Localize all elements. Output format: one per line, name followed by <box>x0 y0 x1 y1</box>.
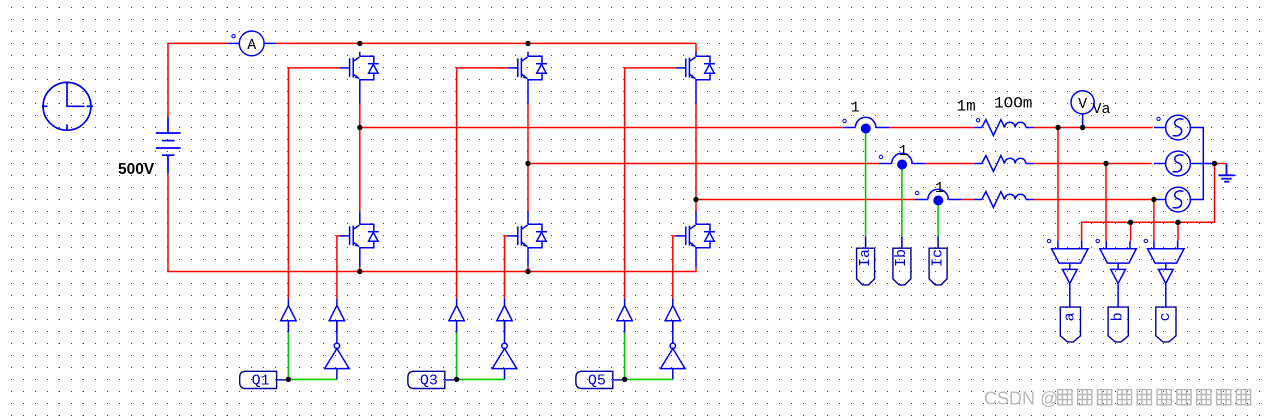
wire: bus drop to comparator b <box>1130 222 1132 241</box>
node: bus tap c <box>1175 220 1180 225</box>
inverter gate at x=504.5 <box>492 321 517 380</box>
wire: phase A to comparator a <box>1057 128 1059 242</box>
gate buffer at x=456.6 <box>449 299 464 333</box>
inverter gate at x=336.9 <box>325 321 350 380</box>
AC source Vb <box>1154 151 1190 176</box>
wire: leg3 lower gate feed <box>673 236 677 299</box>
wire: leg2 lower emitter to rail <box>527 267 529 272</box>
wire: leg2 phase B to lower collector <box>527 164 529 212</box>
node Q5 junction <box>622 377 627 382</box>
svg-text:Q3: Q3 <box>420 372 438 389</box>
ground <box>1218 164 1234 182</box>
label tag Q1 <box>240 371 289 388</box>
AC source Va <box>1154 115 1190 140</box>
node: phase C compare tap <box>1151 197 1156 202</box>
wire: leg1 lower gate feed <box>337 236 340 299</box>
wire: leg3 collector drop <box>695 43 697 52</box>
ammeter A <box>228 31 276 56</box>
svg-text:Q5: Q5 <box>588 372 606 389</box>
label tag b <box>1108 307 1128 342</box>
wire: leg2 top emitter to phase B node <box>527 103 529 163</box>
gate buffer at x=336.9 <box>329 299 344 333</box>
transistor Q3 (top leg2) (IGBT with anti-parallel diode) <box>508 52 547 104</box>
svg-text:1: 1 <box>935 180 944 197</box>
wire: leg3 phase C to lower collector <box>695 200 697 212</box>
gate buffer at x=624.6 <box>617 299 632 333</box>
comparator anchor marker <box>1047 239 1050 242</box>
wire: phase C to comparator c <box>1153 200 1155 242</box>
node: neutral <box>1212 161 1217 166</box>
RL branch phase A <box>974 120 1033 136</box>
transistor Q5 (top leg3) (IGBT with anti-parallel diode) <box>676 52 715 104</box>
wire: phase C sensor to RL <box>962 199 975 201</box>
on-off controller b <box>1111 269 1126 307</box>
wire: Ib tag lead <box>901 236 903 248</box>
node Q3 junction <box>454 377 459 382</box>
svg-text:500V: 500V <box>118 161 155 178</box>
node: phase B compare tap <box>1103 161 1108 166</box>
RL branch phase B <box>974 156 1033 172</box>
svg-text:1: 1 <box>899 143 908 160</box>
label tag Q5 <box>576 371 625 388</box>
wire: battery bottom to negative rail <box>168 174 696 272</box>
svg-text:Va: Va <box>1093 101 1111 118</box>
wire: neutral reference bus <box>1082 164 1215 242</box>
transistor Q2 (bottom leg3) (IGBT with anti-parallel diode) <box>676 211 715 266</box>
current sensor Ia <box>843 117 889 127</box>
svg-text:Ib: Ib <box>893 249 910 267</box>
wire: Q5 gating net <box>625 333 673 380</box>
sensor Ib anchor marker <box>879 155 882 158</box>
wire: leg1 lower emitter to rail <box>359 267 361 272</box>
wire: phase C line <box>696 199 915 201</box>
wire: leg1 phase A to lower collector <box>359 128 361 212</box>
wire: phase B to comparator b <box>1105 164 1107 242</box>
clock element <box>42 82 93 131</box>
wire: leg3 top emitter to phase C node <box>695 103 697 199</box>
wire: leg1 top emitter to phase A node <box>359 103 361 127</box>
wire: neutral to ground <box>1215 163 1227 165</box>
gate buffer at x=288.4 <box>281 299 296 333</box>
svg-text:c: c <box>1157 312 1174 321</box>
wire: Ic tag lead <box>937 236 939 248</box>
RL branch anchor marker <box>976 119 979 122</box>
node: voltmeter tap <box>1080 125 1085 130</box>
wire: phase B sensor to RL <box>925 163 974 165</box>
svg-text:1: 1 <box>851 99 860 116</box>
svg-text:A: A <box>247 37 256 54</box>
wire: phase B RL to source <box>1034 163 1152 165</box>
wire: phase A line <box>360 127 843 129</box>
wire: sensor Ic output drop <box>937 205 939 236</box>
comparator anchor marker <box>1144 239 1147 242</box>
wire: phase B line <box>528 163 879 165</box>
DC source 500V battery <box>156 117 181 174</box>
svg-text:Ic: Ic <box>929 249 946 267</box>
svg-text:CSDN @: CSDN @ <box>984 389 1058 409</box>
svg-text:b: b <box>1109 312 1126 321</box>
gate buffer at x=672.8 <box>665 299 680 333</box>
svg-text:1m: 1m <box>957 98 976 116</box>
AC source Vc <box>1154 187 1190 212</box>
wire: phase A sensor to RL <box>889 127 974 129</box>
wire: leg2 upper gate feed <box>457 68 509 299</box>
node: bottom rail leg2 <box>525 269 530 274</box>
comparator anchor marker <box>1096 239 1099 242</box>
svg-text:Q1: Q1 <box>252 372 270 389</box>
node: phase A leg1 <box>357 125 362 130</box>
sensor Ic anchor marker <box>915 191 918 194</box>
svg-text:Ia: Ia <box>857 249 874 267</box>
node: phase B leg2 <box>525 161 530 166</box>
on-off controller c <box>1158 269 1173 307</box>
label tag Ia <box>857 248 875 285</box>
node: phase A compare tap <box>1055 125 1060 130</box>
wire: sensor Ib output drop <box>901 169 903 236</box>
label tag a <box>1060 307 1080 342</box>
wire: leg1 upper gate feed <box>288 68 340 299</box>
wire: sensor Ia output drop <box>865 133 867 236</box>
transistor Q1 (top leg1) (IGBT with anti-parallel diode) <box>340 52 379 104</box>
comparator c <box>1148 241 1185 269</box>
wire: battery top to ammeter <box>168 43 228 116</box>
inverter gate at x=672.8 <box>661 321 686 380</box>
wire: Ia tag lead <box>865 236 867 248</box>
node Q1 junction <box>286 377 291 382</box>
wire: Q1 gating net <box>288 333 337 380</box>
wire: sources neutral interconnect <box>1190 128 1213 200</box>
wire: leg3 upper gate feed <box>625 68 677 299</box>
current sensor Ic <box>915 189 961 199</box>
wire: top DC rail <box>276 42 696 44</box>
label tag c <box>1156 307 1176 342</box>
wire: Q3 gating net <box>457 333 505 380</box>
current sensor Ib <box>879 153 925 163</box>
wire: phase C RL to source <box>1034 199 1155 201</box>
transistor Q6 (bottom leg2) (IGBT with anti-parallel diode) <box>508 211 547 266</box>
RL branch phase C <box>974 192 1033 208</box>
node: bus tap b <box>1128 220 1133 225</box>
node: phase C leg3 <box>693 197 698 202</box>
svg-text:1OOm: 1OOm <box>994 95 1032 113</box>
gate buffer at x=504.5 <box>497 299 512 333</box>
wire: bus drop to comparator c <box>1177 222 1179 241</box>
node: bottom rail leg1 <box>357 269 362 274</box>
svg-text:V: V <box>1078 96 1087 113</box>
label tag Q3 <box>408 371 457 388</box>
node: top rail leg1 <box>357 41 362 46</box>
svg-text:a: a <box>1062 312 1079 321</box>
ammeter anchor marker <box>232 35 235 38</box>
AC source anchor marker <box>1157 117 1160 120</box>
on-off controller a <box>1062 269 1077 307</box>
wire: phase A RL to source <box>1034 127 1153 129</box>
comparator a <box>1052 241 1089 269</box>
label tag Ic <box>929 248 947 285</box>
label tag Ib <box>893 248 911 285</box>
sensor Ia anchor marker <box>843 119 846 122</box>
node: top rail leg2 <box>525 41 530 46</box>
voltmeter V <box>1071 91 1094 128</box>
wire: leg2 lower gate feed <box>505 236 509 299</box>
comparator b <box>1100 241 1137 269</box>
transistor Q4 (bottom leg1) (IGBT with anti-parallel diode) <box>340 211 379 266</box>
